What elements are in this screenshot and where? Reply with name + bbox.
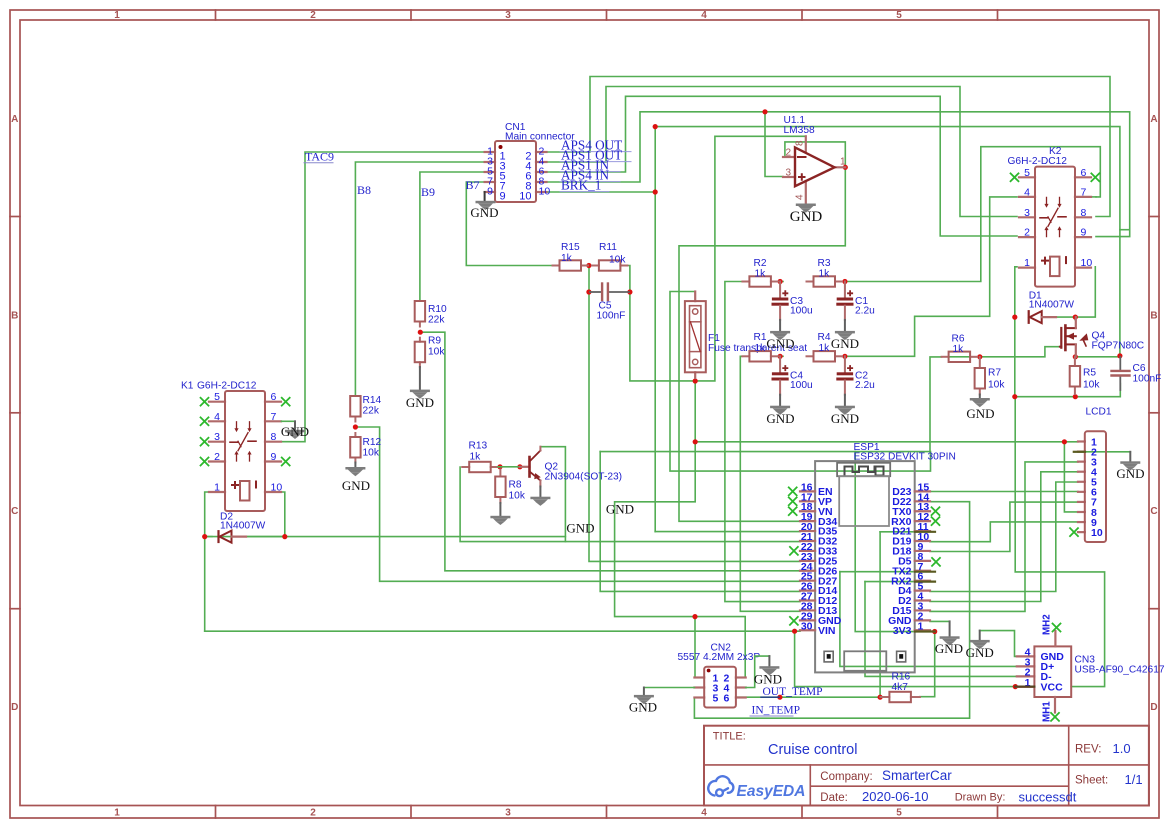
- wire R13 to ESP D32 rail: [460, 467, 800, 542]
- connector CN3 USB: [1017, 655, 1035, 657]
- relay K2 G6H-2-DC12: [1019, 176, 1035, 178]
- no-connect X marks ESP left: [788, 487, 797, 496]
- svg-text:10: 10: [271, 482, 283, 494]
- capacitor C3: [779, 282, 781, 298]
- wire CN2 pin4 to ground: [746, 656, 770, 687]
- svg-text:C: C: [1150, 506, 1157, 517]
- ground at R8: [490, 516, 510, 519]
- wire R11 right to C5 right node: [628, 266, 630, 293]
- svg-text:GND: GND: [966, 645, 994, 660]
- svg-text:1: 1: [114, 10, 120, 21]
- wire CN1 pin1 TAC9 to K1 pin8: [282, 152, 485, 442]
- svg-text:4: 4: [214, 411, 220, 423]
- wire BRK_1 to ESP D35: [655, 531, 800, 533]
- svg-text:OUT_TEMP: OUT_TEMP: [763, 686, 823, 698]
- title block: [704, 726, 1149, 806]
- wire CN1 pin5 B9 to R10: [420, 172, 485, 301]
- svg-text:4k7: 4k7: [892, 682, 909, 693]
- svg-text:5: 5: [214, 391, 220, 403]
- svg-text:B: B: [11, 311, 18, 322]
- svg-text:10: 10: [519, 191, 531, 203]
- svg-text:9: 9: [1081, 227, 1087, 239]
- svg-text:D: D: [11, 702, 18, 713]
- wire jog K2 pin9 to BRK vertical: [1120, 229, 1130, 231]
- op-amp U1.1 LM358: [783, 156, 795, 158]
- svg-text:TAC9: TAC9: [305, 150, 334, 164]
- svg-text:1k: 1k: [953, 344, 965, 355]
- svg-text:R3: R3: [818, 258, 831, 269]
- svg-text:10k: 10k: [988, 380, 1005, 391]
- wire C5 right node down to U1 pin8 rail: [630, 136, 806, 381]
- svg-text:GND: GND: [935, 641, 963, 656]
- svg-text:SmarterCar: SmarterCar: [882, 768, 952, 783]
- svg-text:LCD1: LCD1: [1086, 407, 1112, 418]
- resistor R13: [462, 466, 469, 468]
- diode D1 1N4007W: [1028, 311, 1030, 323]
- wire R4 node to C1: [844, 282, 846, 298]
- CN3 MH1 pin: [1054, 697, 1056, 713]
- wire ESP D22 to IN_TEMP and CN2 pin5: [694, 502, 969, 719]
- svg-text:4: 4: [701, 10, 707, 21]
- wire overlay CN3 VCC stub: [1015, 685, 1034, 687]
- wire R6 rail to ESP D14: [600, 452, 800, 592]
- wire ESP D4 to LCD pin5: [930, 482, 1078, 592]
- transistor Q2 2N3904: [498, 466, 520, 468]
- wire R15 to R11 node: [589, 265, 593, 267]
- svg-text:Cruise control: Cruise control: [768, 742, 857, 758]
- ground at K1 pin7: [282, 420, 296, 422]
- wire CN2 pin2 stub join: [736, 677, 745, 679]
- wire K1 pin1 vertical: [205, 492, 209, 631]
- svg-text:IN_TEMP: IN_TEMP: [752, 705, 801, 717]
- wire BRK_1 top run to C6 rail: [655, 127, 1120, 356]
- svg-text:2: 2: [785, 147, 791, 158]
- relay K1 G6H-2-DC12: [209, 401, 225, 403]
- svg-text:GND: GND: [790, 209, 823, 225]
- capacitor C5: [590, 291, 601, 293]
- svg-text:1k: 1k: [561, 253, 573, 264]
- wire R10 R9 node to ESP D26: [420, 332, 800, 571]
- svg-text:10k: 10k: [363, 448, 380, 459]
- svg-text:MH1: MH1: [1042, 701, 1053, 722]
- wire CN1 pin6 APS1 IN to K2 pin2: [542, 96, 1017, 236]
- wire OUT_TEMP row CN2 pin6 to R16 left: [736, 696, 880, 698]
- svg-text:1: 1: [214, 482, 220, 494]
- CN3 MH2 pin: [1054, 631, 1056, 646]
- svg-text:5: 5: [896, 808, 902, 819]
- wire F1 bottom to CN2 pins 1 and 2: [694, 381, 696, 442]
- svg-text:MH2: MH2: [1042, 614, 1053, 635]
- svg-text:Date:: Date:: [820, 792, 848, 804]
- resistor R2: [742, 281, 749, 283]
- svg-text:6: 6: [1081, 167, 1087, 179]
- svg-text:9: 9: [500, 191, 506, 203]
- svg-text:GND: GND: [406, 395, 434, 410]
- ground at LCD pin2: [1120, 461, 1140, 464]
- wire R2 left to ESP D12: [725, 282, 800, 602]
- svg-text:2020-06-10: 2020-06-10: [862, 789, 929, 804]
- wire K2 pin7 stub join: [1091, 196, 1096, 198]
- svg-text:EasyEDA: EasyEDA: [737, 783, 806, 800]
- svg-text:2: 2: [214, 451, 220, 463]
- svg-text:GND: GND: [566, 521, 594, 536]
- svg-text:VCC: VCC: [1041, 682, 1064, 694]
- wire ESP D18 to LCD pin7: [930, 502, 1078, 551]
- svg-text:4: 4: [1024, 186, 1030, 198]
- resistor R5: [1074, 357, 1076, 366]
- svg-text:FQP7N80C: FQP7N80C: [1092, 341, 1145, 352]
- svg-text:R2: R2: [754, 258, 767, 269]
- svg-text:R10: R10: [428, 304, 447, 315]
- wire CN2 pin3 to ground: [644, 687, 695, 689]
- svg-text:GND: GND: [629, 700, 657, 715]
- wire U1 pin3 branch from APS4 IN line: [765, 112, 783, 177]
- svg-text:10: 10: [1081, 257, 1093, 269]
- wire CN1 pin8 APS4 IN to K2 pin9 region: [542, 112, 1130, 237]
- svg-text:3: 3: [505, 10, 511, 21]
- ground at R9: [410, 390, 430, 393]
- svg-text:R12: R12: [363, 437, 382, 448]
- wire F1 bottom junction: [694, 377, 696, 381]
- svg-text:USB-AF90_C42617: USB-AF90_C42617: [1075, 664, 1165, 675]
- ground at R12: [345, 467, 365, 470]
- connector CN2: [694, 676, 704, 678]
- MOSFET Q4 FQP7N80C: [1060, 346, 1061, 348]
- svg-text:GND: GND: [831, 411, 859, 426]
- ground at CN2 pin3: [634, 695, 654, 698]
- resistor R9: [419, 338, 421, 342]
- svg-text:ESP32 DEVKIT 30PIN: ESP32 DEVKIT 30PIN: [854, 452, 956, 463]
- wire 3V3 riser inside ESP: [855, 452, 930, 632]
- ground at R7: [970, 398, 990, 401]
- svg-text:100nF: 100nF: [1133, 374, 1162, 385]
- wire VIN row from K1 D2 node: [205, 630, 800, 632]
- svg-text:1k: 1k: [819, 343, 831, 354]
- ESP32 pins: [800, 490, 815, 492]
- wire overlay LCD pin2 stub: [1074, 451, 1085, 453]
- wire overlay ESP D21 stub: [915, 531, 935, 533]
- wire VIN to VCC row: [795, 631, 1035, 686]
- svg-text:1N4007W: 1N4007W: [1029, 300, 1075, 311]
- svg-text:4: 4: [795, 194, 806, 200]
- resistor R11: [592, 265, 599, 267]
- capacitor C2: [844, 356, 846, 372]
- wire U1 output to ESP D34: [679, 167, 845, 521]
- svg-text:3: 3: [214, 431, 220, 443]
- wire R4 right node to C2: [844, 356, 846, 372]
- svg-text:GND: GND: [606, 502, 634, 517]
- wire D1 left node down to VCC riser: [1014, 317, 1016, 397]
- svg-text:3: 3: [1024, 207, 1030, 219]
- svg-text:R13: R13: [469, 441, 488, 452]
- svg-text:VIN: VIN: [818, 625, 836, 637]
- svg-text:10: 10: [539, 186, 551, 198]
- svg-text:TITLE:: TITLE:: [713, 731, 746, 743]
- resistor R4: [807, 355, 814, 357]
- svg-text:R7: R7: [988, 368, 1001, 379]
- wire LCD1 pin8 from power rail: [1064, 442, 1078, 512]
- svg-text:R8: R8: [509, 480, 522, 491]
- wire ESP GND pin2 to flag: [930, 620, 950, 622]
- svg-text:9: 9: [487, 186, 493, 198]
- wire CN1 pin10 BRK_1 horizontal: [542, 191, 655, 193]
- wire CN1 pin3 B8 to R14: [355, 162, 484, 396]
- fuse F1: [694, 292, 696, 302]
- wire D1 node down Q4 drain: [1074, 317, 1076, 320]
- svg-text:22k: 22k: [428, 315, 445, 326]
- wire K1 coil rail to Q2 collector riser: [205, 536, 566, 538]
- svg-text:1: 1: [840, 157, 846, 168]
- capacitor C6: [1119, 357, 1121, 370]
- svg-text:10k: 10k: [609, 255, 626, 266]
- svg-text:2.2u: 2.2u: [855, 380, 875, 391]
- wire ESP D15 to LCD pin3: [930, 462, 1078, 612]
- svg-text:LM358: LM358: [784, 125, 815, 136]
- svg-text:A: A: [11, 114, 18, 125]
- resistor R3: [807, 281, 814, 283]
- svg-text:6: 6: [271, 391, 277, 403]
- EasyEDA logo: [708, 776, 733, 796]
- wire BRK_1 vertical long: [654, 127, 656, 532]
- ground at C2: [835, 406, 855, 409]
- svg-text:3: 3: [505, 808, 511, 819]
- wire CN1 pin7 B7 to R15: [466, 182, 553, 266]
- wire D2 anode to rail: [246, 536, 285, 538]
- svg-text:1k: 1k: [755, 269, 767, 280]
- wire VCC east riser to K2 coil feed: [1015, 397, 1104, 687]
- svg-text:GND: GND: [766, 336, 794, 351]
- svg-text:R4: R4: [818, 332, 831, 343]
- svg-text:2: 2: [310, 808, 316, 819]
- ground at CN2 pin4: [759, 666, 779, 669]
- wire CN1 pin4 APS1 OUT to K2 pin3: [542, 87, 1017, 217]
- wire R3 right to K2 pin7 chain: [842, 147, 1100, 282]
- svg-text:GND: GND: [966, 406, 994, 421]
- svg-text:100u: 100u: [790, 380, 813, 391]
- svg-text:1: 1: [114, 808, 120, 819]
- svg-text:2.2u: 2.2u: [855, 306, 875, 317]
- svg-text:G6H-2-DC12: G6H-2-DC12: [197, 381, 257, 392]
- svg-text:GND: GND: [766, 411, 794, 426]
- resistor R16: [880, 696, 889, 698]
- no-connect X LCD pin10: [1069, 528, 1078, 537]
- svg-text:10k: 10k: [509, 491, 526, 502]
- svg-text:B7: B7: [466, 178, 480, 192]
- resistor R6: [942, 356, 949, 358]
- svg-text:R14: R14: [363, 395, 382, 406]
- svg-text:GND: GND: [1116, 466, 1144, 481]
- svg-text:2N3904(SOT-23): 2N3904(SOT-23): [545, 472, 623, 483]
- no-connect X marks K1: [200, 397, 209, 406]
- svg-text:5: 5: [1024, 167, 1030, 179]
- wire R1 node to C4: [779, 356, 781, 372]
- svg-text:1: 1: [1024, 257, 1030, 269]
- wire R1 left to ESP D13: [740, 356, 800, 611]
- svg-text:7: 7: [271, 411, 277, 423]
- svg-text:R5: R5: [1083, 368, 1096, 379]
- wire Q4 source rail to C6: [1075, 356, 1120, 358]
- svg-text:1/1: 1/1: [1125, 772, 1143, 787]
- svg-text:4: 4: [701, 808, 707, 819]
- wire Q4 gate from R6 R7 rail: [949, 347, 1060, 357]
- svg-text:10k: 10k: [428, 347, 445, 358]
- svg-text:R15: R15: [561, 242, 580, 253]
- svg-text:1N4007W: 1N4007W: [220, 521, 266, 532]
- wire Q2 collector riser: [540, 447, 565, 542]
- ground at CN1 pin9: [484, 192, 486, 201]
- capacitor C4: [779, 356, 781, 372]
- no-connect X marks K2: [1010, 173, 1019, 182]
- svg-text:REV:: REV:: [1075, 744, 1101, 756]
- svg-text:100nF: 100nF: [597, 311, 626, 322]
- svg-text:9: 9: [271, 451, 277, 463]
- svg-text:5557 4.2MM 2x3P: 5557 4.2MM 2x3P: [678, 652, 761, 663]
- junction dots: [762, 109, 767, 114]
- resistor R12: [354, 433, 356, 437]
- diode D2 1N4007W: [217, 531, 219, 542]
- svg-text:Drawn By:: Drawn By:: [955, 792, 1006, 804]
- ground at C4: [770, 406, 790, 409]
- wire D1 anode connection: [1056, 316, 1075, 318]
- wire CN1 pin2 APS4 OUT to K2 pin8: [542, 77, 1110, 217]
- svg-text:1k: 1k: [755, 343, 767, 354]
- svg-text:Sheet:: Sheet:: [1075, 775, 1108, 787]
- wire C5 left node down from R15/R11 junction: [588, 266, 590, 293]
- wire ESP D21 drop to OUT_TEMP: [879, 532, 881, 697]
- wire R6 rail 3V3: [600, 357, 941, 452]
- wire overlay ESP 3V3 stub: [915, 630, 935, 632]
- wire 3V3 node to R16 right: [920, 632, 935, 697]
- wire ESP D19 to LCD pin9: [930, 522, 1078, 542]
- ground at Q2 emitter: [530, 497, 550, 500]
- wire K2 pin10 to D1 right node: [1075, 267, 1095, 317]
- wire U1 feedback loop: [785, 142, 845, 167]
- svg-text:B: B: [1150, 311, 1157, 322]
- svg-text:5: 5: [713, 692, 719, 704]
- no-connect X marks ESP right: [931, 507, 940, 516]
- svg-text:BRK_1: BRK_1: [561, 178, 601, 193]
- svg-text:D: D: [1150, 702, 1157, 713]
- svg-text:C6: C6: [1133, 363, 1146, 374]
- wire R2 R3 node: [778, 281, 784, 283]
- svg-text:R11: R11: [599, 242, 617, 253]
- svg-text:GND: GND: [831, 336, 859, 351]
- wire D2 cathode stub west: [205, 536, 212, 538]
- resistor R10: [419, 300, 421, 302]
- ground at C3: [770, 331, 790, 334]
- wire ESP D21 inside module: [880, 531, 930, 533]
- ESP32 module ESP1: [815, 461, 915, 672]
- svg-text:GND: GND: [281, 424, 309, 439]
- svg-text:GND: GND: [754, 672, 782, 687]
- svg-text:7: 7: [1081, 186, 1087, 198]
- svg-text:22k: 22k: [363, 406, 380, 417]
- svg-text:10: 10: [1091, 527, 1103, 539]
- connector CN1: [485, 151, 495, 153]
- svg-text:8: 8: [271, 431, 277, 443]
- wire F1 top to 3V3 rail riser: [670, 292, 931, 472]
- wire bottom rail R5 C6: [1015, 384, 1121, 397]
- ground flags near ESP bottom: [940, 636, 960, 639]
- svg-text:G6H-2-DC12: G6H-2-DC12: [1008, 156, 1068, 167]
- resistor R7: [979, 357, 981, 368]
- svg-text:B8: B8: [357, 183, 371, 197]
- svg-text:1.0: 1.0: [1113, 741, 1131, 756]
- wire overlay ESP TX2 stub: [915, 571, 935, 573]
- svg-text:3V3: 3V3: [893, 625, 912, 637]
- svg-text:C: C: [11, 506, 18, 517]
- wire R1 R4 node: [778, 355, 784, 357]
- resistor R1: [742, 355, 749, 357]
- svg-text:2: 2: [1024, 227, 1030, 239]
- svg-text:GND: GND: [470, 205, 498, 220]
- ground at U1 pin4: [796, 204, 816, 207]
- resistor R15: [553, 265, 560, 267]
- wire LCD1 power rail: [695, 441, 1078, 443]
- svg-text:GND: GND: [342, 478, 370, 493]
- svg-text:Company:: Company:: [820, 771, 872, 783]
- svg-text:2: 2: [310, 10, 316, 21]
- svg-text:A: A: [1150, 114, 1157, 125]
- svg-text:R1: R1: [754, 332, 767, 343]
- wire CN3 GND chain: [980, 631, 1017, 657]
- svg-text:K1: K1: [181, 381, 194, 392]
- wire CN2 pin1 drop: [695, 617, 704, 678]
- wire R4 right to K2 pin4 chain: [842, 197, 1017, 356]
- wire LCD pin2 to GND: [1078, 451, 1130, 453]
- wire ESP TX2 to CN3 D+: [840, 571, 915, 573]
- wire K1 pin10 drop to D2 node: [282, 492, 285, 537]
- capacitor C1: [844, 282, 846, 298]
- svg-text:6: 6: [724, 692, 730, 704]
- connector LCD1: [1078, 440, 1085, 442]
- svg-text:1k: 1k: [819, 269, 831, 280]
- svg-text:successdt: successdt: [1019, 789, 1077, 804]
- ground at C1: [835, 331, 855, 334]
- svg-text:1k: 1k: [470, 452, 482, 463]
- wire K2 pin1 to D1 node: [1015, 267, 1017, 317]
- wire ESP RX2 to CN3 D-: [865, 581, 915, 583]
- wire ESP D2 to LCD pin4: [930, 472, 1078, 602]
- svg-text:8: 8: [795, 140, 806, 146]
- svg-text:5: 5: [896, 10, 902, 21]
- svg-text:R16: R16: [892, 672, 911, 683]
- svg-text:8: 8: [1081, 207, 1087, 219]
- wire ESP D23 to LCD pin6: [930, 491, 1078, 493]
- svg-text:30: 30: [801, 620, 813, 632]
- svg-text:3: 3: [785, 167, 791, 178]
- svg-text:B9: B9: [421, 185, 435, 199]
- svg-text:10k: 10k: [1083, 380, 1100, 391]
- wire R14 R12 node to ESP D27: [355, 427, 800, 581]
- resistor R14: [354, 395, 356, 397]
- wire overlay ESP RX2 stub: [915, 580, 935, 582]
- svg-text:100u: 100u: [790, 306, 813, 317]
- svg-text:R6: R6: [952, 334, 965, 345]
- resistor R8: [499, 470, 501, 477]
- svg-text:R9: R9: [428, 336, 441, 347]
- wire C5 left node to ESP D25: [589, 292, 800, 561]
- wire R3 node to C3: [779, 282, 781, 298]
